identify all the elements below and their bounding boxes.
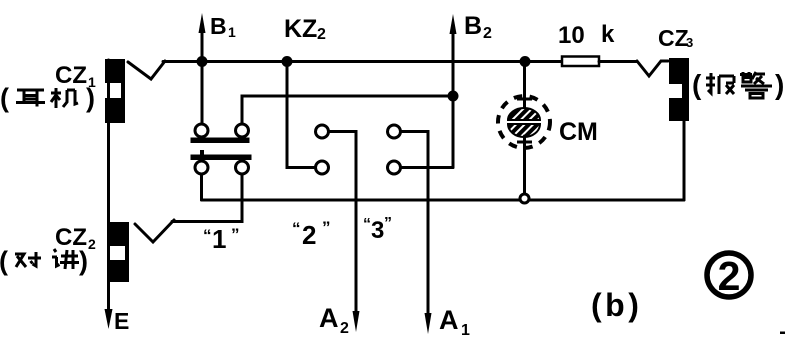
svg-text:2: 2 bbox=[483, 25, 492, 42]
svg-text:1: 1 bbox=[461, 322, 470, 339]
svg-text:): ) bbox=[775, 69, 784, 100]
svg-text:1: 1 bbox=[228, 24, 236, 40]
ground terminal E arrow bbox=[105, 309, 113, 329]
wire CM top lead bbox=[523, 64, 526, 108]
svg-text:B: B bbox=[210, 13, 227, 39]
svg-text:”: ” bbox=[322, 218, 331, 237]
node B2 junction bbox=[448, 91, 459, 102]
contact 1 pin lower-left bbox=[195, 161, 208, 174]
label CZ1 bbox=[55, 62, 96, 90]
label "2" bbox=[292, 218, 331, 250]
svg-text:): ) bbox=[79, 246, 88, 276]
contact 2 pin lower bbox=[316, 161, 329, 174]
contact 3 pin lower bbox=[388, 161, 401, 174]
svg-text:”: ” bbox=[231, 225, 240, 244]
wire contact3 lower right to B2 branch bbox=[401, 166, 453, 169]
wire CM bottom lead bbox=[523, 136, 526, 195]
svg-text:3: 3 bbox=[686, 35, 693, 50]
wire contact1 lower-left down to bottom bus bbox=[200, 174, 203, 200]
svg-text:A: A bbox=[439, 305, 459, 335]
battery terminal B1 arrow bbox=[199, 13, 206, 61]
svg-text:”: ” bbox=[384, 215, 392, 232]
wire contact2 upper to A2 bbox=[329, 132, 356, 313]
wire main top bus bbox=[163, 60, 562, 63]
wire KZ2 down to contact group 2 lower bbox=[287, 64, 314, 168]
node CM bottom (open circle) bbox=[520, 194, 529, 203]
label KZ2 bbox=[284, 15, 326, 43]
wire bottom bus bbox=[202, 199, 685, 202]
wire CZ1 plug spring kink bbox=[128, 61, 165, 79]
svg-text:2: 2 bbox=[718, 253, 741, 299]
contact 1 pin upper-left bbox=[195, 124, 208, 137]
contact 1 armature bar lower bbox=[191, 155, 252, 161]
figure number 2 (circled) bbox=[707, 253, 751, 299]
svg-text:2: 2 bbox=[340, 320, 349, 337]
connector CZ3 (alarm jack) bbox=[669, 58, 689, 121]
svg-text:(b): (b) bbox=[591, 287, 642, 323]
wire B1 down to contact group 1 upper-left bbox=[201, 64, 204, 123]
svg-text:A: A bbox=[319, 303, 339, 333]
svg-text:CM: CM bbox=[559, 118, 598, 146]
svg-text:E: E bbox=[114, 308, 129, 334]
svg-text:2: 2 bbox=[317, 26, 326, 43]
connector CZ2 (intercom jack) bbox=[110, 222, 129, 282]
label (对讲) bbox=[0, 246, 88, 276]
svg-text:): ) bbox=[86, 83, 95, 113]
stray mark bottom right bbox=[780, 332, 785, 335]
relay contact group 2 bbox=[316, 125, 329, 174]
svg-text:10: 10 bbox=[558, 22, 585, 49]
wire CZ2 plug spring kink bbox=[135, 220, 174, 242]
contact 1 pin lower-right bbox=[236, 161, 249, 174]
label A1 bbox=[439, 305, 470, 339]
label A2 bbox=[319, 303, 349, 337]
wire contact1 upper-right up and over to node B2 bbox=[242, 96, 453, 124]
wire contact3 upper to A1 bbox=[401, 132, 428, 315]
svg-text:(: ( bbox=[0, 246, 8, 276]
contact 1 armature nub bbox=[200, 150, 204, 155]
relay contact group 1 bbox=[191, 124, 252, 174]
label B1 bbox=[210, 13, 236, 40]
label B2 bbox=[464, 12, 492, 42]
svg-text:“: “ bbox=[363, 216, 371, 233]
wire CZ3 down to bottom bus bbox=[683, 121, 686, 200]
node KZ2 junction bbox=[282, 56, 293, 67]
contact 1 armature bar upper bbox=[191, 138, 250, 144]
svg-text:1: 1 bbox=[212, 224, 226, 254]
contact 2 pin upper bbox=[316, 125, 329, 138]
label (报警) bbox=[692, 69, 784, 100]
battery terminal B2 arrow and branch bbox=[450, 14, 457, 168]
svg-text:“: “ bbox=[203, 226, 212, 245]
svg-text:2: 2 bbox=[88, 236, 96, 252]
contact 1 pin upper-right bbox=[236, 124, 249, 137]
wire contact1 lower-right down and left to CZ2 bbox=[172, 174, 242, 222]
terminal A2 arrow bbox=[353, 311, 360, 332]
relay contact group 3 bbox=[388, 125, 401, 174]
label (耳机) bbox=[0, 83, 95, 113]
svg-text:CZ: CZ bbox=[658, 25, 689, 51]
svg-text:(: ( bbox=[0, 83, 9, 113]
svg-text:KZ: KZ bbox=[284, 15, 317, 43]
microphone CM bbox=[498, 96, 550, 148]
svg-text:3: 3 bbox=[371, 217, 384, 244]
node CM top junction bbox=[520, 56, 531, 67]
wire resistor to CZ3 bbox=[599, 60, 637, 63]
svg-text:B: B bbox=[464, 12, 482, 40]
label CZ3 bbox=[658, 25, 693, 51]
node B1 junction bbox=[197, 56, 208, 67]
label CZ2 bbox=[55, 224, 96, 252]
svg-text:(: ( bbox=[692, 69, 702, 100]
label "1" bbox=[203, 224, 240, 254]
svg-text:CZ: CZ bbox=[55, 62, 87, 89]
svg-text:“: “ bbox=[292, 219, 301, 238]
svg-text:k: k bbox=[601, 21, 615, 48]
resistor 10k bbox=[562, 57, 599, 67]
terminal A1 arrow bbox=[425, 313, 432, 334]
label 10 k bbox=[558, 21, 615, 49]
label "3" bbox=[363, 215, 392, 244]
connector CZ1 (earphone jack) bbox=[105, 59, 125, 123]
wire common left rail bbox=[107, 60, 110, 312]
svg-text:2: 2 bbox=[302, 220, 316, 250]
wire CZ3 plug spring kink bbox=[637, 61, 668, 76]
contact 3 pin upper bbox=[388, 125, 401, 138]
